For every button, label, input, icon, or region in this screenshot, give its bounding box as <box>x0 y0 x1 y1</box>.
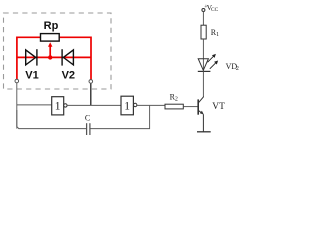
wire: black drop from right terminal <box>90 83 92 105</box>
logic gate U2 (box 1) <box>121 96 133 115</box>
inverter bubble of U2 <box>134 103 137 106</box>
wire: R1 to LED <box>202 39 204 71</box>
wire: Vcc to R1 <box>202 12 204 26</box>
svg-text:1: 1 <box>124 101 130 113</box>
svg-text:C: C <box>85 114 90 123</box>
wire: gray drop from left terminal to bottom rail <box>16 83 18 129</box>
svg-text:VT: VT <box>212 102 225 112</box>
potentiometer Rp body <box>41 34 60 42</box>
diode V2 <box>62 49 73 65</box>
transistor VT <box>198 96 204 131</box>
diode V1 <box>26 49 37 65</box>
wire: red top wire through Rp <box>17 36 91 38</box>
wire: red right vertical <box>90 37 92 80</box>
svg-text:2: 2 <box>236 66 239 72</box>
wiper arrowhead <box>48 42 52 47</box>
dashed enclosure border <box>4 13 112 89</box>
wire: LED to collector <box>202 71 204 96</box>
wire: red middle wire through diodes <box>17 56 91 58</box>
emitter terminal bar <box>197 131 211 133</box>
svg-text:1: 1 <box>55 101 61 113</box>
wire: U2 output to R2 <box>137 104 165 106</box>
inverter bubble of U1 <box>64 104 67 107</box>
svg-text:2: 2 <box>175 97 178 103</box>
svg-text:1: 1 <box>216 32 219 38</box>
terminal: right node circle <box>89 80 93 84</box>
wire: U1 output to U2 input <box>67 104 121 106</box>
svg-text:V2: V2 <box>62 70 75 82</box>
logic gate U1 (box 1) <box>52 97 64 115</box>
svg-text:V1: V1 <box>25 70 38 82</box>
wire: branch to gate 1 input <box>17 104 52 106</box>
wire: R2 to transistor base <box>183 106 197 108</box>
LED emission arrows <box>208 54 219 69</box>
terminal +Vcc <box>202 9 205 12</box>
node: red junction dot <box>48 55 52 59</box>
terminal: left node circle <box>15 79 19 83</box>
wire: bottom rail right of capacitor up to R2 row <box>90 105 149 128</box>
capacitor C plates <box>87 123 90 135</box>
resistor R1 body <box>201 25 206 39</box>
wire: red wiper stem <box>49 45 51 57</box>
wire: red left vertical <box>16 37 18 80</box>
resistor R2 body <box>165 104 183 109</box>
LED VD2 <box>198 59 211 72</box>
wire: bottom rail left of capacitor <box>17 110 86 129</box>
svg-text:Rp: Rp <box>44 20 59 32</box>
svg-text:CC: CC <box>211 7 219 13</box>
